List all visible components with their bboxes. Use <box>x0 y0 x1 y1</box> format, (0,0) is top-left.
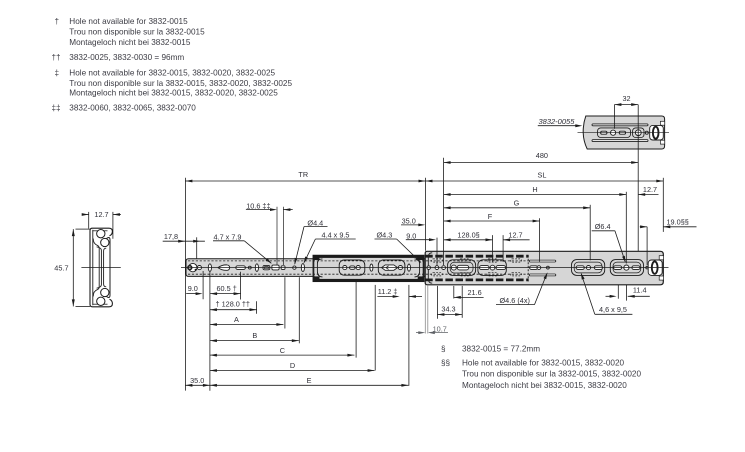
svg-text:§: § <box>441 345 446 354</box>
intermediate member <box>313 255 424 281</box>
dimension 12.7 (section width) <box>88 212 90 229</box>
svg-text:35.0: 35.0 <box>402 216 416 225</box>
cabinet horizontal slot <box>236 266 246 270</box>
extension line 9.0 hole <box>202 271 204 299</box>
dimension 480 <box>444 162 639 164</box>
hidden slot ends (dashed) <box>432 259 443 262</box>
dimension 12.7 top right <box>638 194 658 196</box>
drawer left end cap <box>428 253 432 283</box>
extension line G right <box>589 205 591 260</box>
drawer small circles left <box>435 266 439 270</box>
svg-text:SL: SL <box>538 171 547 180</box>
extension line 34.3 right <box>461 286 463 318</box>
intermediate vertical slot b <box>408 264 411 271</box>
svg-text:B: B <box>252 331 257 340</box>
intermediate right end cap <box>418 256 424 281</box>
dimension A <box>210 324 284 326</box>
dimension F <box>444 220 540 222</box>
svg-text:C: C <box>280 346 285 355</box>
hidden intermediate edges (dashed dark bands) <box>425 255 528 258</box>
extension line first slot <box>209 272 211 391</box>
dimension G <box>444 207 591 209</box>
cross-section intermediate member <box>93 239 99 297</box>
svg-text:Montageloch nicht bei 3832-001: Montageloch nicht bei 3832-0015, 3832-00… <box>462 381 627 390</box>
dimension 35.0 bottom <box>185 384 210 386</box>
svg-text:Montageloch nicht bei 3832-001: Montageloch nicht bei 3832-0015 <box>69 38 191 47</box>
dimension E <box>210 384 409 386</box>
svg-text:17,8: 17,8 <box>164 232 178 241</box>
cabinet vertical slot 1 <box>208 264 211 272</box>
svg-text:35.0: 35.0 <box>190 376 204 385</box>
svg-text:11.4: 11.4 <box>633 286 647 295</box>
svg-text:Montageloch nicht bei 3832-001: Montageloch nicht bei 3832-0015, 3832-00… <box>69 89 278 98</box>
main centreline <box>181 267 669 269</box>
svg-text:45.7: 45.7 <box>54 263 68 272</box>
extension line 10.7 pair <box>424 285 426 334</box>
extension line D <box>374 285 376 371</box>
extension line 128.0 top right <box>492 235 494 262</box>
detail view body 3832-0055 <box>583 116 664 149</box>
dimension B <box>210 340 299 342</box>
cabinet front mount detail <box>189 263 197 271</box>
svg-text:‡‡: ‡‡ <box>52 103 61 112</box>
dimension 128.0 bottom <box>210 309 257 311</box>
dimension 34.3 <box>437 314 462 316</box>
ball bearings <box>97 230 105 238</box>
svg-text:128.0§: 128.0§ <box>457 231 479 240</box>
svg-text:TR: TR <box>298 170 308 179</box>
cross-section outer member <box>90 228 112 307</box>
svg-text:Hole not available for 3832-00: Hole not available for 3832-0015, 3832-0… <box>462 359 624 368</box>
svg-text:Trou non disponible sur la 383: Trou non disponible sur la 3832-0015, 38… <box>462 370 641 379</box>
svg-text:3832-0015 = 77.2mm: 3832-0015 = 77.2mm <box>462 345 540 354</box>
detail centreline <box>578 132 670 134</box>
dimension 32 <box>613 105 615 129</box>
cabinet vertical slot 2 <box>255 264 258 272</box>
extension line B <box>298 277 300 343</box>
intermediate plate outline 2 with lance <box>378 260 405 275</box>
svg-text:G: G <box>514 199 520 208</box>
detail square plate + circle <box>633 128 644 138</box>
cabinet small circle <box>248 266 251 269</box>
extension line 480/H/G/F left <box>443 158 445 265</box>
svg-text:480: 480 <box>536 151 548 160</box>
svg-text:††: †† <box>52 53 61 62</box>
extension line 128.0 right <box>256 301 258 314</box>
intermediate end corner blocks <box>313 255 320 260</box>
cabinet teardrop slot 4.7x7.9 <box>218 266 223 269</box>
hidden member end (dashed vertical) <box>527 255 529 281</box>
extension line TR/SL split <box>425 178 427 251</box>
extension line 34.3 left <box>436 286 438 319</box>
cross-section drawer member wall <box>106 238 110 298</box>
drawer plate C <box>572 260 605 276</box>
extension line 11.4 pair <box>617 285 619 299</box>
cabinet circle O4.4 <box>293 266 296 269</box>
cabinet member (outer rail, side view) <box>186 259 428 277</box>
svg-text:60.5 †: 60.5 † <box>217 284 237 293</box>
svg-text:D: D <box>290 361 295 370</box>
detail oval holes <box>601 131 607 134</box>
detail long slot top <box>592 124 648 126</box>
svg-text:Ø4.4: Ø4.4 <box>307 218 323 227</box>
svg-text:4.7 x 7.9: 4.7 x 7.9 <box>214 232 242 241</box>
svg-text:19.0§§: 19.0§§ <box>667 217 689 226</box>
svg-text:3832-0025, 3832-0030 = 96mm: 3832-0025, 3832-0030 = 96mm <box>69 53 184 62</box>
svg-text:3832-0060, 3832-0065, 3832-007: 3832-0060, 3832-0065, 3832-0070 <box>69 103 196 112</box>
extension line SL right <box>662 178 664 232</box>
svg-text:Hole not available for 3832-00: Hole not available for 3832-0015 <box>69 17 188 26</box>
extension line 21.6 <box>453 286 455 299</box>
drawer member <box>425 251 663 284</box>
cabinet rect slot 10.6 a <box>272 265 279 270</box>
extension line H right <box>625 192 627 264</box>
cabinet square hole <box>281 266 285 270</box>
svg-text:Ø4.6 (4x): Ø4.6 (4x) <box>500 296 530 305</box>
drawer end stop oval <box>652 261 658 273</box>
svg-text:9.0: 9.0 <box>406 231 416 240</box>
svg-text:† 128.0 ††: † 128.0 †† <box>216 300 251 309</box>
svg-text:F: F <box>488 212 493 221</box>
svg-text:12.7: 12.7 <box>508 231 522 240</box>
extension line E <box>408 285 410 386</box>
extension line 9.0 top <box>436 238 438 266</box>
svg-text:A: A <box>234 315 239 324</box>
intermediate left end cap <box>314 256 320 281</box>
dimension SL <box>426 180 664 182</box>
svg-text:9.0: 9.0 <box>188 284 198 293</box>
extension line 19.0 left <box>646 227 648 265</box>
extension line C <box>355 282 357 358</box>
detail small circle <box>645 131 648 134</box>
section centreline <box>81 267 120 269</box>
detail circle hole <box>611 130 616 135</box>
extension line A <box>284 277 286 328</box>
dimension D <box>210 370 375 372</box>
svg-text:11.2 ‡: 11.2 ‡ <box>378 287 398 296</box>
svg-text:12.7: 12.7 <box>94 210 108 219</box>
detail end slot <box>650 125 664 140</box>
drawer end slot <box>648 260 662 275</box>
cabinet vertical slot 4.4x9.5 <box>301 264 304 272</box>
extension line 60.5 right <box>240 272 242 300</box>
drawer plate B <box>478 260 506 276</box>
svg-text:Ø4.3: Ø4.3 <box>377 230 393 239</box>
dimension H <box>444 194 627 196</box>
svg-text:‡: ‡ <box>55 69 60 78</box>
detail long slot bottom <box>592 140 648 142</box>
drawer plate A <box>448 260 476 276</box>
svg-text:10.6 ‡‡: 10.6 ‡‡ <box>246 201 270 210</box>
extension line rail front <box>184 178 186 391</box>
drawer holes mid <box>530 266 538 270</box>
svg-text:Trou non disponible sur la 383: Trou non disponible sur la 3832-0015 <box>69 28 205 37</box>
dimension 19.0 section-section <box>640 226 647 228</box>
svg-text:34.3: 34.3 <box>441 305 455 314</box>
svg-text:Trou non disponible sur la 383: Trou non disponible sur la 3832-0015, 38… <box>69 79 292 88</box>
drawer end corner dents <box>659 256 663 260</box>
drawer thin slots <box>529 260 556 262</box>
drawer plate D <box>610 260 643 276</box>
dimension 21.6 <box>454 296 484 298</box>
dimension 128.0 <box>444 239 493 241</box>
detail end corner dents <box>660 121 664 125</box>
hidden cabinet dashed edges <box>188 260 529 262</box>
drawer small circle right <box>646 266 649 269</box>
cabinet double rect slot <box>263 265 270 269</box>
detail end stop oval <box>653 127 659 139</box>
detail centre plate outline <box>598 128 631 138</box>
svg-text:H: H <box>532 185 537 194</box>
dimension C <box>210 354 355 356</box>
svg-text:4,6 x 9,5: 4,6 x 9,5 <box>599 305 627 314</box>
svg-text:†: † <box>55 17 60 26</box>
intermediate plate outline 1 <box>339 260 365 275</box>
intermediate vertical slot a <box>370 264 373 271</box>
svg-text:§§: §§ <box>441 359 451 368</box>
svg-text:12.7: 12.7 <box>643 185 657 194</box>
dimension 60.5 <box>210 293 241 295</box>
svg-text:E: E <box>307 376 312 385</box>
svg-text:32: 32 <box>622 94 630 103</box>
extension line 12.7 mid <box>502 235 504 262</box>
extension line F right <box>539 218 541 261</box>
svg-text:3832-0055: 3832-0055 <box>539 117 576 126</box>
svg-text:Ø6.4: Ø6.4 <box>595 222 611 231</box>
dimension 45.7 (section height) <box>76 228 91 230</box>
svg-text:21.6: 21.6 <box>468 288 482 297</box>
svg-text:4.4 x 9.5: 4.4 x 9.5 <box>322 230 350 239</box>
dimension TR <box>185 180 425 182</box>
svg-text:Hole not available for 3832-00: Hole not available for 3832-0015, 3832-0… <box>69 69 275 78</box>
dimension 12.7 mid <box>503 239 529 241</box>
extension line 17.8 aux <box>196 237 198 258</box>
